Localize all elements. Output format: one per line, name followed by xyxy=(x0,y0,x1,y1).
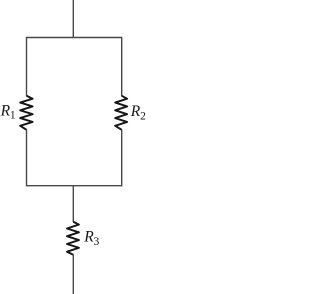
wire: right branch upper segment xyxy=(121,37,123,96)
wire: left branch lower segment xyxy=(26,129,28,186)
resistor R3 xyxy=(67,222,79,255)
wire: bottom rail xyxy=(27,185,122,187)
wire: right branch lower segment xyxy=(121,129,123,186)
label R1 xyxy=(0,102,16,121)
wire: top feed from edge to top rail xyxy=(72,0,74,38)
label R2 xyxy=(130,103,146,122)
resistor R1 xyxy=(20,96,32,130)
resistor R2 xyxy=(115,96,127,130)
label R3 xyxy=(83,229,99,249)
wire: bottom feed from R3 to edge xyxy=(72,254,74,294)
svg-text:3: 3 xyxy=(94,236,100,248)
wire: top rail xyxy=(27,37,122,39)
svg-text:2: 2 xyxy=(140,111,146,123)
wire: center stem from bottom rail to R3 xyxy=(72,186,74,222)
svg-text:1: 1 xyxy=(10,110,16,122)
wire: left branch upper segment xyxy=(26,37,28,96)
